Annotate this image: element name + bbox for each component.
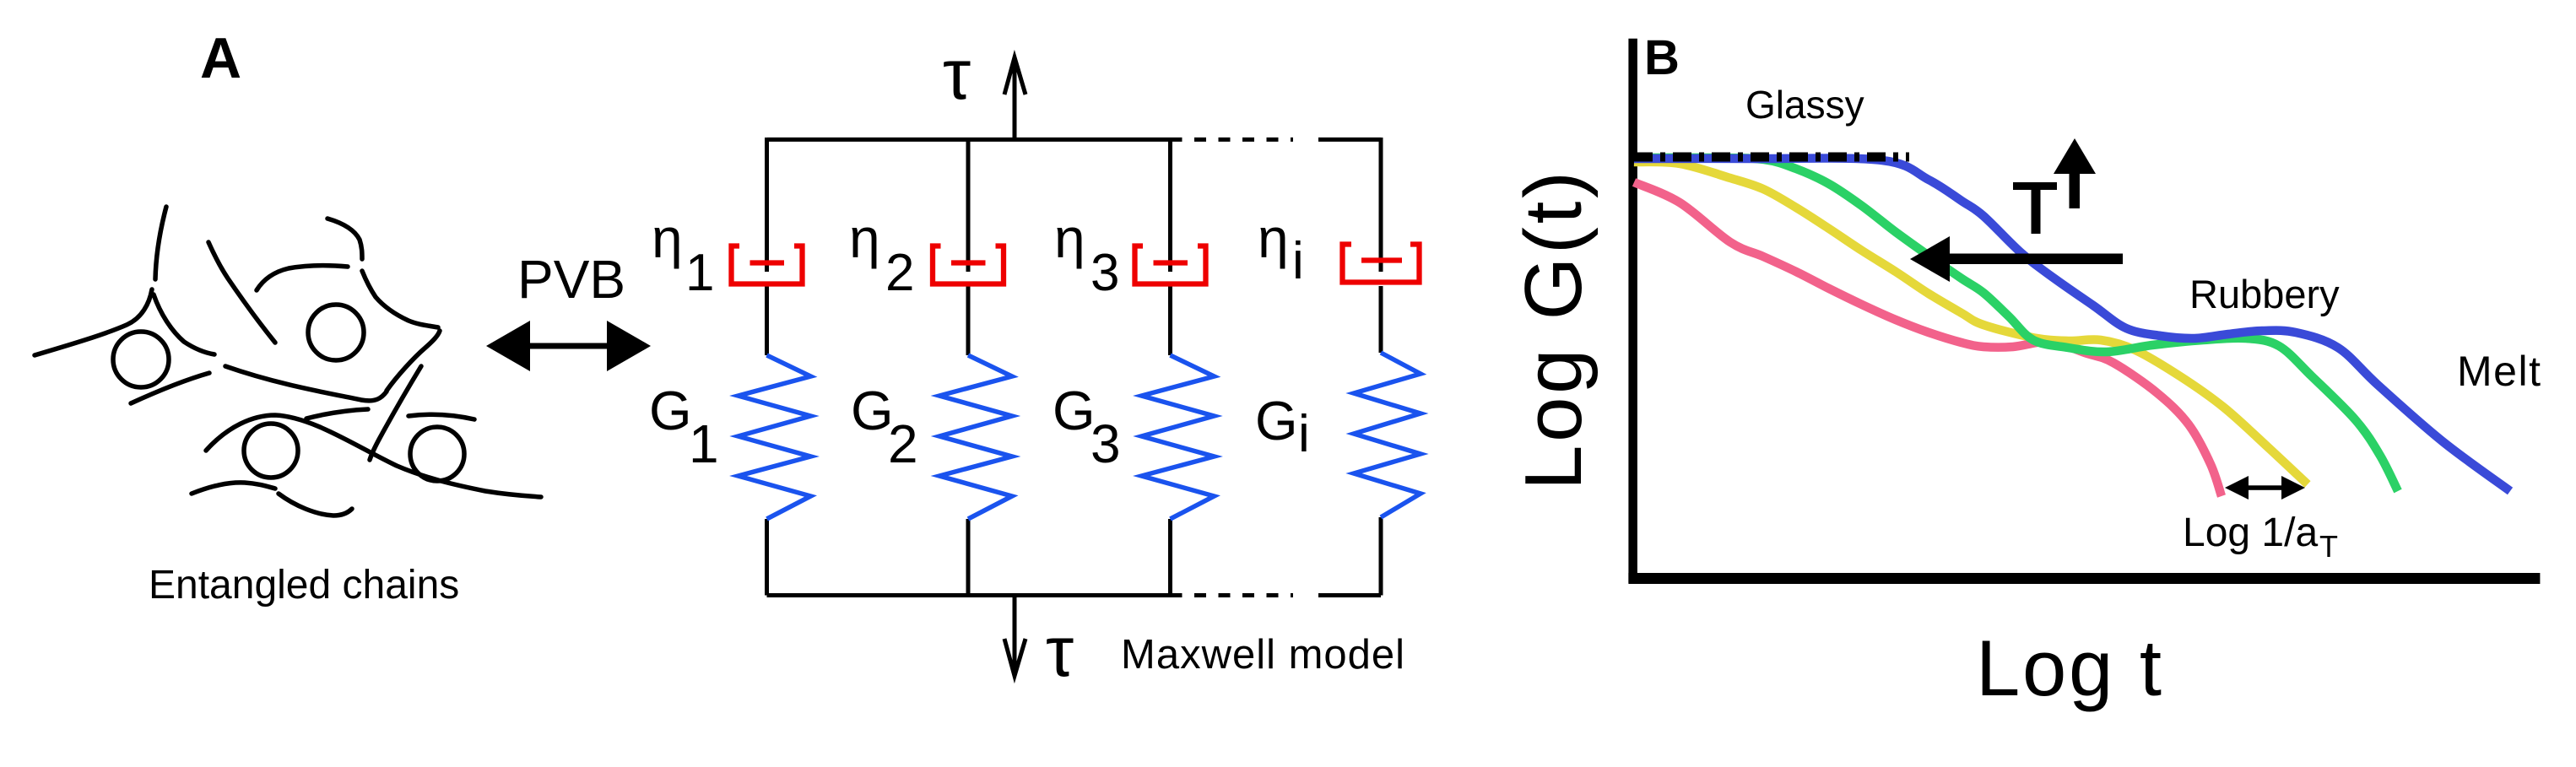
svg-text:Maxwell model: Maxwell model — [1121, 632, 1405, 678]
svg-text:Melt: Melt — [2457, 348, 2541, 395]
chain stroke junction diagonal — [154, 294, 214, 354]
svg-text:Log t: Log t — [1976, 624, 2162, 712]
wire top bus dashed — [1194, 138, 1293, 142]
glassy plateau dash-dot line — [1634, 153, 1909, 162]
wire branch3 upper — [1168, 138, 1172, 272]
svg-text:G: G — [1053, 380, 1096, 441]
dashpot eta i — [1343, 245, 1420, 283]
curve yellow — [1634, 162, 2308, 484]
chain stroke bottom wave — [206, 415, 541, 497]
chain stroke left long curve — [35, 289, 152, 355]
chain stroke mid stub — [306, 409, 368, 419]
entangled chains sketch — [35, 207, 541, 516]
chain stroke mid S diagonal — [208, 242, 275, 343]
curve pink (lowest temperature shifted) — [1634, 182, 2222, 496]
entanglement circle C2 — [308, 305, 364, 360]
spring Gi — [1354, 353, 1421, 517]
wire bottom bus solid — [767, 593, 1182, 597]
label T — [2013, 182, 2057, 234]
svg-text:η: η — [1258, 207, 1289, 269]
svg-text:3: 3 — [1090, 413, 1121, 474]
entanglement circle C4 — [410, 427, 464, 481]
chain stroke under circle C1 — [131, 373, 209, 403]
svg-text:Rubbery: Rubbery — [2189, 272, 2340, 316]
chain stroke dash above C4 — [409, 414, 474, 419]
dashpot eta3 — [1135, 246, 1206, 284]
chain stroke bottom S hook — [279, 494, 352, 516]
chain stroke backbone — [225, 366, 387, 401]
wire branch i upper — [1379, 138, 1383, 272]
wire branch i lower — [1379, 517, 1383, 596]
spring G3 — [1142, 355, 1215, 519]
wire top bus right — [1318, 138, 1381, 142]
chain stroke top middle arc — [327, 219, 362, 259]
shift left arrow — [1910, 236, 2123, 282]
svg-text:τ: τ — [1046, 612, 1074, 691]
wire branch3 lower — [1168, 519, 1172, 596]
chain stroke rise — [387, 331, 440, 391]
wire bottom bus right — [1318, 593, 1381, 597]
wire branch2 mid — [966, 286, 971, 355]
svg-text:η: η — [849, 207, 880, 269]
dashpot eta2 — [933, 246, 1004, 284]
svg-text:η: η — [652, 207, 683, 269]
stress arrow top — [1004, 57, 1026, 138]
svg-text:τ: τ — [943, 35, 971, 114]
svg-text:i: i — [1298, 405, 1310, 463]
chain stroke arch right — [362, 271, 438, 327]
svg-text:Log G(t): Log G(t) — [1508, 171, 1599, 490]
svg-text:2: 2 — [885, 244, 914, 302]
entanglement circle C1 — [113, 332, 169, 387]
svg-text:1: 1 — [685, 244, 714, 302]
wire branch2 upper — [966, 138, 971, 272]
svg-text:Log 1/a: Log 1/a — [2183, 510, 2318, 555]
stress arrow bottom — [1004, 595, 1026, 676]
curve green — [1634, 158, 2398, 491]
chain stroke upper-left arc — [155, 207, 166, 279]
svg-text:η: η — [1054, 207, 1085, 269]
svg-text:Entangled chains: Entangled chains — [149, 563, 459, 608]
x axis — [1628, 573, 2540, 584]
chain stroke bottom-left wiggle — [192, 483, 275, 494]
svg-text:B: B — [1644, 30, 1680, 85]
wire bottom bus dashed — [1194, 593, 1293, 597]
spring G2 — [939, 355, 1012, 519]
svg-text:1: 1 — [689, 413, 719, 474]
svg-text:G: G — [649, 380, 692, 441]
dashpot eta1 — [732, 246, 803, 284]
shift double arrow Log 1/aT — [2225, 476, 2305, 500]
svg-text:G: G — [1255, 390, 1298, 451]
svg-text:3: 3 — [1090, 244, 1119, 302]
spring G1 — [739, 355, 811, 519]
svg-text:G: G — [851, 380, 894, 441]
double-headed arrow PVB — [486, 321, 651, 371]
wire top bus solid — [767, 138, 1182, 142]
wire branch1 mid — [765, 286, 769, 355]
svg-text:T: T — [2319, 529, 2338, 564]
svg-text:Glassy: Glassy — [1745, 83, 1864, 127]
temperature up arrow — [2054, 138, 2096, 208]
svg-text:2: 2 — [888, 413, 918, 474]
svg-text:A: A — [200, 26, 241, 90]
svg-text:PVB: PVB — [517, 249, 625, 310]
entanglement circle C3 — [244, 424, 298, 478]
wire branch3 mid — [1168, 286, 1172, 355]
wire branch1 upper — [765, 138, 769, 272]
svg-text:i: i — [1292, 232, 1304, 290]
y axis — [1628, 39, 1637, 583]
wire branch2 lower — [966, 519, 971, 596]
wire branch1 lower — [765, 519, 769, 596]
wire branch i mid — [1379, 286, 1383, 353]
chain stroke arch left — [257, 266, 348, 290]
curve blue — [1634, 159, 2510, 491]
chain stroke big diagonal — [370, 366, 421, 460]
